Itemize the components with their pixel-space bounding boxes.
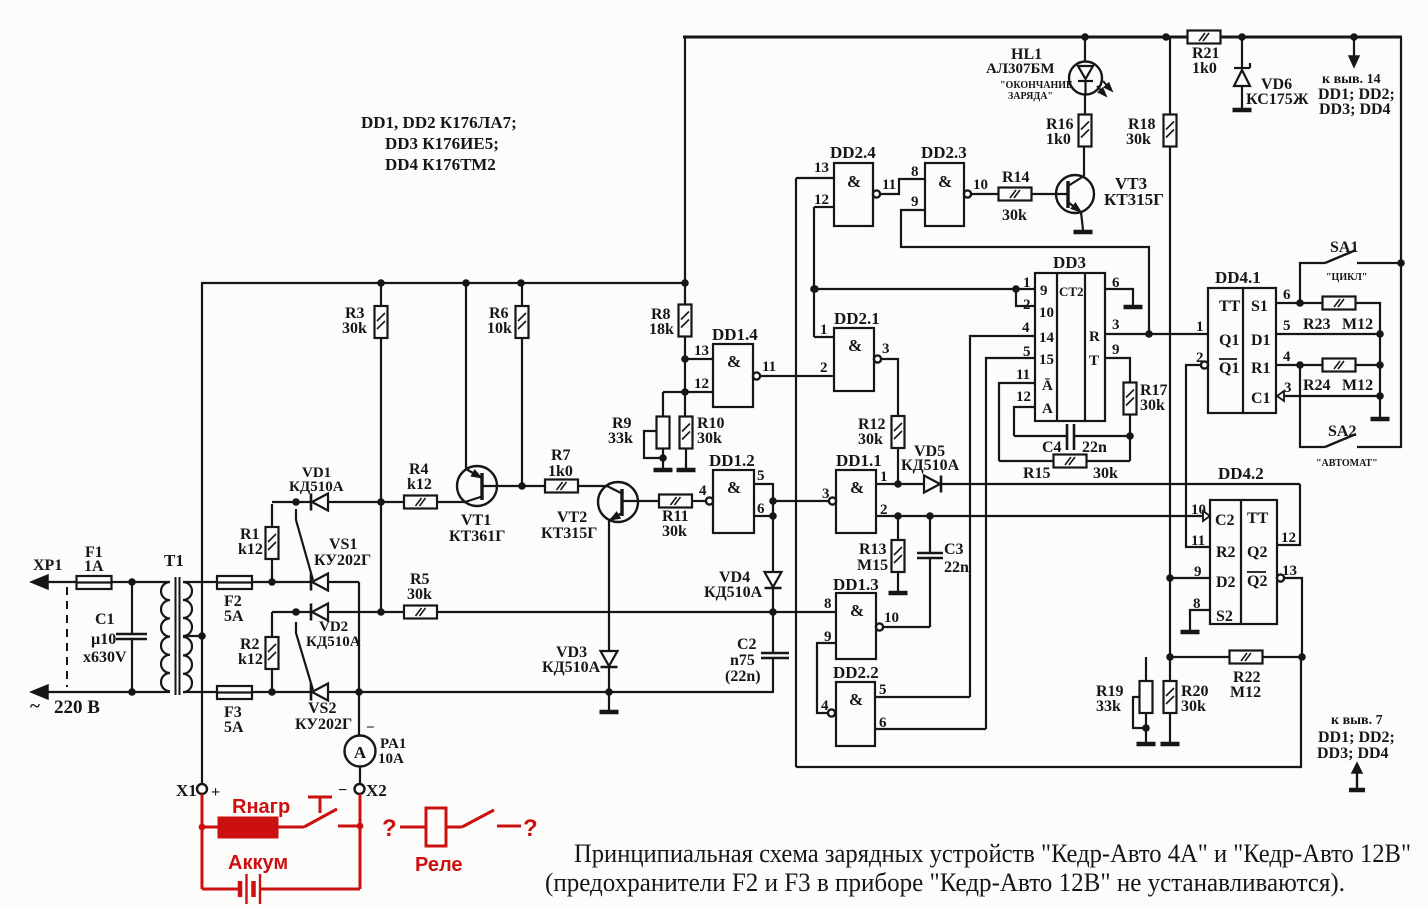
svg-text:DD1.3: DD1.3 bbox=[833, 575, 879, 594]
svg-text:4: 4 bbox=[821, 698, 829, 714]
svg-text:10А: 10А bbox=[378, 751, 404, 767]
wire DD2.1 out to R12 bbox=[881, 359, 898, 416]
wire DD3 pin1 input bbox=[811, 285, 1035, 293]
wire DD4.1 pin6 node bbox=[1276, 299, 1322, 307]
terminal X1 bbox=[176, 781, 220, 801]
relay contact (red) bbox=[382, 808, 538, 876]
wire DD4.1 pin5 wire bbox=[1276, 333, 1380, 335]
resistor R22 bbox=[1170, 651, 1302, 702]
svg-text:n75: n75 bbox=[730, 652, 755, 669]
svg-text:k12: k12 bbox=[407, 476, 432, 493]
flip-flop DD4.1 bbox=[1196, 268, 1292, 413]
wire R11 to DD1.2 output bbox=[692, 500, 706, 502]
wire T1 center tap bbox=[183, 632, 206, 640]
wire VS2 anode to bottom rail bbox=[327, 691, 609, 693]
LED HL1 bbox=[986, 37, 1112, 102]
wire DD1.2 pin6 branch bbox=[754, 515, 773, 517]
caption line1 bbox=[574, 839, 1411, 868]
capacitor C1 bbox=[83, 582, 147, 692]
node to pin 14 arrow bbox=[1318, 37, 1395, 118]
svg-text:DD2.2: DD2.2 bbox=[833, 663, 879, 682]
wire pin13 branch bbox=[685, 358, 713, 360]
fuse F1 bbox=[77, 544, 112, 589]
svg-text:Реле: Реле bbox=[415, 854, 463, 876]
wire R2 top corner to VD2 node bbox=[272, 608, 311, 616]
flip-flop DD4.2 bbox=[1191, 464, 1297, 625]
svg-text:Аккум: Аккум bbox=[228, 852, 288, 874]
resistor R9 bbox=[608, 392, 673, 470]
svg-text:DD4 К176ТМ2: DD4 К176ТМ2 bbox=[385, 155, 496, 174]
wire DD4.2 pin9 branch bbox=[1170, 577, 1210, 579]
svg-text:VS1: VS1 bbox=[329, 536, 357, 553]
switch load (red) bbox=[277, 797, 361, 827]
wire DD4.1 pin2 to DD4.2 R2 bbox=[1186, 365, 1210, 547]
svg-text:~: ~ bbox=[30, 696, 40, 717]
svg-text:М12: М12 bbox=[1342, 377, 1373, 394]
svg-text:&: & bbox=[850, 478, 864, 497]
svg-text:S2: S2 bbox=[1216, 608, 1233, 625]
wire R4 to VT1 collector bbox=[437, 501, 465, 503]
wire VT3 collector bbox=[1083, 146, 1085, 176]
svg-text:8: 8 bbox=[824, 596, 832, 612]
svg-text:SA1: SA1 bbox=[1330, 239, 1358, 256]
wire DD1.4 out to DD2.1 pin2 bbox=[760, 375, 834, 377]
svg-text:Т1: Т1 bbox=[164, 551, 184, 570]
wire VT2 base to R11 bbox=[622, 500, 659, 502]
wire VT1 base to R7 node bbox=[482, 482, 545, 490]
wire secondary top to F2 bbox=[183, 581, 217, 583]
svg-text:C1: C1 bbox=[1251, 390, 1271, 407]
wire PA1 to X2 bbox=[359, 766, 361, 784]
logic gate DD1.4 bbox=[694, 325, 776, 407]
resistor R11 bbox=[659, 495, 692, 541]
wire R1 top corner to VD1 node bbox=[272, 498, 311, 506]
svg-text:D1: D1 bbox=[1251, 332, 1271, 349]
svg-text:µ10: µ10 bbox=[91, 631, 116, 648]
wire DD2.1 pin1 branch bbox=[814, 336, 834, 338]
svg-text:Принципиальная схема зарядных: Принципиальная схема зарядных устройств … bbox=[574, 839, 1411, 868]
label chip types bbox=[361, 113, 517, 174]
svg-text:DD1, DD2 К176ЛА7;: DD1, DD2 К176ЛА7; bbox=[361, 113, 517, 132]
wire VD1-VD2 tie vertical bbox=[380, 502, 382, 612]
svg-text:&: & bbox=[849, 690, 863, 709]
svg-text:15: 15 bbox=[1039, 352, 1054, 368]
svg-text:VS2: VS2 bbox=[308, 700, 336, 717]
wire VD2 to R5 bbox=[327, 608, 404, 616]
svg-text:SA2: SA2 bbox=[1328, 423, 1356, 440]
svg-text:1: 1 bbox=[820, 322, 828, 338]
svg-text:КД510А: КД510А bbox=[289, 479, 344, 495]
svg-text:30k: 30k bbox=[662, 523, 687, 540]
svg-text:R2: R2 bbox=[1216, 544, 1236, 561]
wire DD3 T output to R17 bbox=[1105, 358, 1130, 383]
svg-text:КД510А: КД510А bbox=[901, 457, 960, 474]
terminal X2 bbox=[338, 781, 387, 800]
resistor R2 bbox=[238, 612, 279, 692]
wire DD4.2 pin12 jog bbox=[1277, 484, 1300, 545]
svg-text:R23: R23 bbox=[1303, 316, 1331, 333]
zener VD6 bbox=[1233, 37, 1309, 110]
svg-text:8: 8 bbox=[911, 164, 919, 180]
svg-text:11: 11 bbox=[1191, 533, 1205, 549]
svg-text:D2: D2 bbox=[1216, 574, 1236, 591]
wire riser x796 (DD2.4 pin13 to bottom bus) bbox=[795, 178, 797, 767]
svg-text:(предохранители F2 и F3 в приб: (предохранители F2 и F3 в приборе "Кедр-… bbox=[545, 868, 1345, 897]
capacitor C2 bbox=[725, 636, 789, 692]
wire VT2 emitter to VD3 bbox=[608, 520, 610, 651]
svg-text:КД510А: КД510А bbox=[306, 634, 361, 650]
counter DD3 bbox=[1016, 253, 1120, 421]
resistor R23 bbox=[1303, 297, 1373, 334]
wire XP1 top lead with arrow bbox=[31, 575, 78, 589]
wire vertical x773 with VD4 bbox=[769, 501, 777, 653]
resistor R17 bbox=[1124, 382, 1168, 415]
svg-text:М12: М12 bbox=[1342, 316, 1373, 333]
svg-text:4: 4 bbox=[699, 483, 707, 499]
svg-text:DD2.3: DD2.3 bbox=[921, 143, 967, 162]
svg-text:?: ? bbox=[382, 815, 397, 842]
wire right bus drop x1401 bbox=[1400, 37, 1402, 448]
svg-text:R24: R24 bbox=[1303, 377, 1331, 394]
svg-text:&: & bbox=[938, 172, 952, 191]
wire R7 to VT2 bbox=[578, 485, 607, 487]
wire main vertical riser x685 bbox=[684, 36, 686, 304]
resistor R7 bbox=[545, 447, 578, 493]
svg-text:k12: k12 bbox=[238, 651, 263, 668]
svg-text:14: 14 bbox=[1039, 330, 1055, 346]
svg-text:M15: M15 bbox=[857, 557, 888, 574]
wire F3 to VS2 row bbox=[252, 688, 311, 696]
wire F2 to VS1 row bbox=[252, 578, 311, 586]
svg-text:R: R bbox=[1089, 329, 1100, 345]
wire DD1.1 pin1 to VD5 node bbox=[876, 483, 899, 485]
svg-text:12: 12 bbox=[694, 376, 709, 392]
wire R10 stem bbox=[684, 392, 686, 418]
svg-text:k12: k12 bbox=[238, 541, 263, 558]
svg-text:КД510А: КД510А bbox=[542, 659, 601, 676]
svg-text:10: 10 bbox=[973, 177, 988, 193]
svg-text:5: 5 bbox=[757, 468, 765, 484]
wire R14 to VT3 base bbox=[1031, 193, 1068, 195]
svg-text:КТ315Г: КТ315Г bbox=[1104, 190, 1164, 209]
wire R5 to DD1.3 pin8 long bbox=[437, 608, 836, 616]
resistor R16 bbox=[1046, 94, 1092, 148]
svg-text:VD2: VD2 bbox=[319, 619, 348, 635]
svg-text:АЛ307БМ: АЛ307БМ bbox=[986, 61, 1055, 77]
svg-text:CT2: CT2 bbox=[1059, 284, 1084, 299]
svg-text:Rнагр: Rнагр bbox=[232, 796, 290, 818]
wire DD4.1 pin3 wire bbox=[1284, 395, 1380, 397]
logic gate DD2.2 bbox=[821, 663, 887, 746]
wire DD4.2 pin13 to R22 node bbox=[1284, 578, 1306, 661]
wire DD3 pin2 jog bbox=[1016, 289, 1035, 306]
svg-text:18k: 18k bbox=[649, 321, 674, 338]
svg-text:x630V: x630V bbox=[83, 649, 127, 666]
svg-text:DD1.4: DD1.4 bbox=[712, 325, 758, 344]
wire VS1 anode to down corner bbox=[327, 581, 359, 583]
transistor VT2 bbox=[541, 482, 638, 542]
svg-text:Q2: Q2 bbox=[1247, 544, 1267, 561]
svg-text:R15: R15 bbox=[1023, 465, 1051, 482]
logic gate DD1.3 bbox=[824, 575, 899, 659]
resistor R12 bbox=[858, 416, 905, 448]
ground at VD3 bbox=[600, 692, 619, 712]
svg-text:1: 1 bbox=[880, 469, 888, 485]
svg-text:X1: X1 bbox=[176, 781, 197, 800]
svg-text:30k: 30k bbox=[342, 320, 367, 337]
resistor R1 bbox=[238, 504, 279, 582]
svg-text:DD4.1: DD4.1 bbox=[1215, 268, 1261, 287]
diode VD2 bbox=[306, 604, 361, 651]
svg-text:30k: 30k bbox=[1002, 207, 1027, 224]
svg-text:12: 12 bbox=[1016, 389, 1031, 405]
svg-text:"АВТОМАТ": "АВТОМАТ" bbox=[1316, 458, 1378, 469]
svg-text:3: 3 bbox=[882, 341, 890, 357]
wire top supply bus y37 bbox=[683, 33, 1402, 41]
svg-text:R14: R14 bbox=[1002, 169, 1030, 186]
diode VD5 bbox=[899, 443, 960, 493]
svg-text:30k: 30k bbox=[697, 430, 722, 447]
wire VD3 to rail node bbox=[605, 667, 613, 696]
wire DD3 pin6 to ground bbox=[1105, 289, 1143, 307]
thyristor VS2 bbox=[295, 622, 352, 733]
svg-text:3: 3 bbox=[822, 486, 830, 502]
capacitor C4 bbox=[1014, 424, 1130, 456]
wire red X1 drop bbox=[199, 794, 206, 889]
switch SA1 bbox=[1300, 239, 1405, 303]
wire R23 to D1 node bbox=[1356, 303, 1384, 338]
svg-text:М12: М12 bbox=[1230, 684, 1261, 701]
svg-text:3: 3 bbox=[1284, 380, 1292, 396]
logic gate DD2.4 bbox=[814, 143, 896, 226]
svg-text:10: 10 bbox=[884, 610, 899, 626]
wire red X2 drop bbox=[357, 794, 364, 889]
wire X1 positive line (bus corner to X1) bbox=[201, 283, 203, 785]
wire VD5 to DD4.2 pin12 long bbox=[941, 483, 1300, 485]
svg-text:3: 3 bbox=[1112, 317, 1120, 333]
wire VT3 emitter to ground bbox=[1074, 212, 1093, 232]
wire DD3 pin4 input bbox=[970, 336, 1035, 697]
svg-text:TT: TT bbox=[1247, 510, 1269, 527]
wire F1 to C1 node bbox=[112, 578, 171, 586]
svg-text:12: 12 bbox=[1281, 530, 1296, 546]
svg-text:30k: 30k bbox=[1126, 131, 1151, 148]
wire R24 right bbox=[1356, 364, 1380, 366]
svg-text:R7: R7 bbox=[551, 447, 571, 464]
svg-text:−: − bbox=[366, 720, 375, 736]
svg-text:10k: 10k bbox=[487, 320, 512, 337]
transistor VT3 bbox=[1056, 174, 1164, 213]
svg-text:&: & bbox=[847, 172, 861, 191]
svg-text:−: − bbox=[338, 782, 347, 799]
wire DD2.3 pin9 feedback bbox=[901, 210, 1149, 334]
capacitor C3 bbox=[917, 516, 969, 627]
svg-text:4: 4 bbox=[1022, 320, 1030, 336]
svg-text:КТ361Г: КТ361Г bbox=[449, 528, 505, 545]
wire DD3 pin12 input bbox=[1014, 407, 1035, 436]
wire DD4.2 pin8 to ground bbox=[1181, 610, 1211, 632]
svg-text:5: 5 bbox=[879, 682, 887, 698]
wire DD2.3 out to R14 bbox=[971, 193, 999, 195]
resistor R13 bbox=[857, 516, 908, 593]
thyristor VS1 bbox=[296, 509, 371, 591]
wire top distribution bus y283 bbox=[201, 279, 689, 287]
svg-text:КД510А: КД510А bbox=[704, 584, 763, 601]
wire R8 to DD1.4 pin13 bbox=[681, 337, 689, 396]
load resistor Rnagr (red) bbox=[202, 796, 290, 837]
svg-text:12: 12 bbox=[814, 192, 829, 208]
wire DD3 pin5 input bbox=[986, 358, 1035, 729]
wire DD2.2 pin5 branch bbox=[875, 696, 970, 698]
svg-text:9: 9 bbox=[911, 194, 919, 210]
svg-text:VT1: VT1 bbox=[461, 512, 491, 529]
wire VT1 emitter from bus bbox=[465, 283, 467, 469]
svg-text:+: + bbox=[211, 784, 220, 801]
wire riser x814 bbox=[810, 207, 818, 337]
svg-text:A: A bbox=[1042, 401, 1053, 417]
svg-text:13: 13 bbox=[694, 343, 709, 359]
svg-text:к выв. 7: к выв. 7 bbox=[1331, 713, 1383, 728]
resistor R6 bbox=[487, 283, 529, 486]
svg-text:30k: 30k bbox=[858, 431, 883, 448]
wire bottom bus bbox=[796, 657, 1301, 767]
caption line2 bbox=[545, 868, 1345, 897]
logic gate DD1.1 bbox=[822, 451, 888, 533]
svg-text:&: & bbox=[850, 601, 864, 620]
svg-text:22n: 22n bbox=[944, 559, 969, 576]
svg-text:КС175Ж: КС175Ж bbox=[1246, 91, 1309, 108]
svg-text:220 В: 220 В bbox=[54, 697, 100, 718]
wire dashed mains boundary bbox=[66, 587, 68, 687]
svg-text:DD3: DD3 bbox=[1053, 253, 1086, 272]
svg-text:DD3 К176ИЕ5;: DD3 К176ИЕ5; bbox=[385, 134, 499, 153]
svg-text:33k: 33k bbox=[608, 430, 633, 447]
svg-text:DD2.1: DD2.1 bbox=[834, 309, 880, 328]
resistor R21 (in bus) bbox=[1188, 31, 1221, 78]
svg-text:XP1: XP1 bbox=[33, 557, 62, 574]
svg-text:"ОКОНЧАНИЕ: "ОКОНЧАНИЕ bbox=[1000, 80, 1073, 91]
wire DD1.1 pin2 node wire bbox=[876, 512, 1204, 520]
svg-text:1: 1 bbox=[1196, 319, 1204, 335]
node to pin 7 arrow bbox=[1317, 713, 1395, 790]
svg-text:C2: C2 bbox=[737, 636, 757, 653]
svg-text:&: & bbox=[727, 352, 741, 371]
svg-text:КТ315Г: КТ315Г bbox=[541, 525, 597, 542]
wire VD1 to R4 node bbox=[327, 498, 404, 506]
svg-text:30k: 30k bbox=[1093, 465, 1118, 482]
fuse F3 bbox=[217, 686, 252, 736]
svg-text:Ā: Ā bbox=[1042, 378, 1053, 394]
svg-text:&: & bbox=[727, 478, 741, 497]
wire pin12 branch bbox=[663, 391, 713, 393]
svg-text:11: 11 bbox=[882, 177, 896, 193]
svg-text:11: 11 bbox=[762, 359, 776, 375]
connector XP1 label bbox=[33, 557, 62, 574]
wire DD3 R output bbox=[1105, 330, 1208, 338]
wire DD1.3 out to C3 bbox=[883, 626, 930, 628]
svg-text:6: 6 bbox=[1283, 287, 1291, 303]
svg-text:1k0: 1k0 bbox=[548, 463, 573, 480]
resistor R24 bbox=[1303, 359, 1373, 395]
wire DD4.1 pin4 node bbox=[1276, 361, 1322, 369]
svg-text:"ЦИКЛ": "ЦИКЛ" bbox=[1326, 272, 1367, 283]
diode VD1 bbox=[289, 465, 344, 511]
svg-text:R13: R13 bbox=[859, 541, 887, 558]
resistor R8 bbox=[649, 304, 692, 338]
wire R12 to DD1.1 pin1 node bbox=[894, 448, 902, 488]
resistor R18 bbox=[1126, 37, 1177, 148]
wire node chain x1380 bbox=[1371, 334, 1390, 419]
resistor R3 bbox=[342, 283, 388, 502]
svg-text:DD3; DD4: DD3; DD4 bbox=[1319, 101, 1391, 118]
svg-text:PA1: PA1 bbox=[380, 736, 406, 752]
svg-text:A: A bbox=[354, 743, 367, 762]
svg-text:C3: C3 bbox=[944, 541, 964, 558]
wire DD2.4 out jog to DD2.3 pin8 bbox=[880, 179, 925, 194]
wire DD1.2 pin5 jog bbox=[754, 484, 773, 501]
diode VD4 bbox=[704, 569, 782, 601]
svg-text:к выв. 14: к выв. 14 bbox=[1322, 72, 1381, 87]
transformer T1 bbox=[161, 551, 192, 695]
svg-text:30k: 30k bbox=[1181, 698, 1206, 715]
svg-text:30k: 30k bbox=[407, 586, 432, 603]
resistor R14 bbox=[999, 169, 1032, 224]
battery Akkum (red) bbox=[202, 852, 360, 904]
svg-text:6: 6 bbox=[757, 501, 765, 517]
svg-text:13: 13 bbox=[814, 160, 829, 176]
wire R17 to C4 node bbox=[1126, 415, 1134, 462]
wire bottom rail to C2 corner bbox=[609, 691, 774, 693]
svg-text:1k0: 1k0 bbox=[1046, 131, 1071, 148]
svg-text:T: T bbox=[1089, 353, 1099, 369]
logic gate DD1.2 bbox=[699, 451, 765, 533]
svg-text:ЗАРЯДА": ЗАРЯДА" bbox=[1008, 91, 1053, 102]
svg-text:DD4.2: DD4.2 bbox=[1218, 464, 1264, 483]
wire DD3 pin11 input bbox=[999, 383, 1035, 461]
resistor R5 bbox=[404, 571, 437, 619]
svg-text:33k: 33k bbox=[1096, 698, 1121, 715]
svg-text:1k0: 1k0 bbox=[1192, 60, 1217, 77]
svg-text:9: 9 bbox=[1112, 342, 1120, 358]
svg-text:S1: S1 bbox=[1251, 298, 1268, 315]
wire XP1 bottom lead with arrow bbox=[31, 685, 170, 699]
svg-text:4: 4 bbox=[1283, 349, 1291, 365]
svg-text:5: 5 bbox=[1283, 318, 1291, 334]
svg-text:Q2: Q2 bbox=[1247, 573, 1267, 590]
switch SA2 bbox=[1300, 365, 1401, 469]
svg-text:R1: R1 bbox=[1251, 360, 1271, 377]
svg-text:5А: 5А bbox=[224, 608, 244, 625]
fuse F2 bbox=[217, 576, 252, 625]
svg-text:30k: 30k bbox=[1140, 397, 1165, 414]
wire DD1.3 pin9 to DD2.2 out bbox=[817, 643, 836, 713]
resistor R4 bbox=[404, 461, 437, 509]
logic gate DD2.3 bbox=[911, 143, 988, 226]
svg-text:DD2.4: DD2.4 bbox=[830, 143, 876, 162]
svg-text:2: 2 bbox=[820, 360, 828, 376]
ammeter PA1 bbox=[345, 720, 407, 767]
svg-text:VT2: VT2 bbox=[557, 509, 587, 526]
svg-text:5А: 5А bbox=[224, 719, 244, 736]
svg-text:TT: TT bbox=[1219, 298, 1241, 315]
wire DD2.4 pin13 from riser bbox=[796, 177, 834, 179]
transistor VT1 bbox=[449, 466, 505, 545]
svg-text:11: 11 bbox=[1016, 367, 1030, 383]
svg-text:?: ? bbox=[523, 815, 538, 842]
svg-text:КУ202Г: КУ202Г bbox=[314, 552, 371, 569]
svg-text:DD1.2: DD1.2 bbox=[709, 451, 755, 470]
wire secondary bottom to F3 bbox=[183, 691, 217, 693]
